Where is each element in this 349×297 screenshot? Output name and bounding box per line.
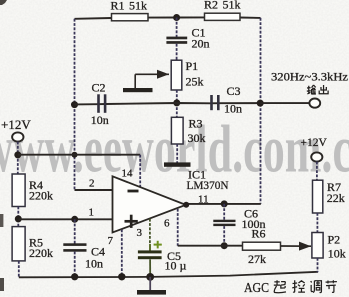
svg-text:10 µ: 10 µ [165,258,187,272]
wire output from op-amp [186,203,261,205]
svg-text:7: 7 [108,235,114,247]
label shuchu output CJK [307,85,328,94]
resistor R2 [205,13,241,20]
svg-text:10n: 10n [85,256,103,270]
capacitor C3 [210,95,219,110]
svg-text:220k: 220k [29,188,53,202]
node output junction [257,100,264,107]
terminal +12V left [12,132,23,141]
label P1 25k [186,59,204,88]
svg-text:1: 1 [89,207,95,219]
svg-text:C2: C2 [92,81,106,95]
wire C4 bottom stub [74,252,76,277]
CJK qi [274,280,286,292]
svg-text:R1: R1 [111,0,125,13]
wire C1 to P1 [176,44,178,61]
potentiometer P1 [171,60,182,90]
svg-text:22k: 22k [327,191,345,205]
capacitor C1 [166,37,187,44]
label R5 220k [29,236,53,260]
resistor R3 [171,117,183,144]
node op-amp output apex [183,202,189,208]
op-amp plus symbol [125,215,138,228]
ground R3 [164,162,191,166]
wire left vertical [74,19,76,190]
wire C2 C3 row [75,103,261,104]
wire output row [260,102,309,104]
node C5 bottom ground [146,273,154,281]
svg-text:R2: R2 [204,0,218,12]
svg-text:30k: 30k [188,131,206,145]
ground P1 wiper [123,88,153,92]
resistor R6 [243,242,281,250]
node C4 bottom [71,273,78,280]
CJK jie [326,280,337,292]
ground main [137,290,166,295]
svg-text:10n: 10n [224,101,242,115]
label R6 27k [248,227,266,267]
svg-text:27k: 27k [248,252,266,266]
resistor R7 [313,180,323,213]
label AGC qikong tiaojie [244,280,337,296]
svg-text:3: 3 [137,227,143,239]
capacitor C6 [213,220,235,226]
R6 to P2 wiper arrow [281,245,312,247]
label R2 51k [204,0,241,12]
label C4 10n [85,245,105,271]
svg-text:AGC: AGC [244,281,269,296]
wire C1 stub [176,18,178,38]
svg-text:C3: C3 [227,84,241,98]
terminal output [309,99,320,108]
svg-text:10k: 10k [328,246,346,260]
resistor R5 [12,227,25,261]
svg-text:320Hz~3.3kHz: 320Hz~3.3kHz [271,72,348,84]
svg-text:R3: R3 [189,117,203,131]
svg-text:6: 6 [164,217,170,229]
scan artifact top-left corner [0,0,7,5]
wire top rail [75,17,261,18]
scan artifact left edge mid [0,214,3,227]
capacitor C4 [63,243,86,251]
wire C6 top stub [223,204,225,220]
svg-text:220k: 220k [29,246,53,260]
svg-text:P1: P1 [186,59,199,73]
svg-text:+12V: +12V [1,117,31,132]
svg-text:2: 2 [89,177,95,189]
wire C6 bottom stub [223,226,225,246]
label C5 10u [165,249,187,273]
label R1 51k [111,0,148,13]
wire +12V to R4 [17,142,19,174]
node supply rail crossing [72,152,78,158]
node C6 bottom R6 row [221,242,228,249]
wire R7 to P2 [316,213,318,233]
node R1-R2 top junction [173,14,180,21]
label C1 20n [192,25,210,50]
wire pin14 vertical [139,155,141,188]
node pin7 ground rail [118,273,125,280]
svg-text:P2: P2 [328,233,341,247]
wire R4 to R5 [17,207,19,227]
label R3 30k [188,117,206,145]
watermark www.eeworld.com.c [0,111,349,187]
wire pin2 input [75,189,113,191]
svg-text:R6: R6 [252,227,266,241]
wire right vertical [260,18,262,204]
wire C4 top stub [74,219,76,243]
wire bottom rail [19,272,318,278]
wire R3 to ground [176,144,178,163]
op-amp minus symbol [128,190,139,193]
wire ground stub [149,277,151,290]
svg-text:25k: 25k [186,75,204,89]
op-amp U1 triangle [113,176,186,232]
wire R6 row [178,245,243,247]
svg-text:51k: 51k [129,0,147,13]
svg-text:14: 14 [122,168,134,180]
label C5 plus sign [154,241,162,249]
wire supply rail to pin14 [18,154,140,156]
capacitor C5 electrolytic [138,244,162,277]
wire R5 to ground rail [18,261,20,278]
wire pin3 vertical [149,219,151,251]
label C6 100n [242,207,266,232]
wire pin7 vertical [121,230,123,277]
CJK kong [292,280,305,292]
label R7 22k [327,180,345,205]
terminal +12V right [311,152,322,161]
label R4 220k [29,178,53,202]
P1 wiper arrow [135,74,169,88]
capacitor C2 [97,94,106,113]
node C6 top [221,200,228,207]
wire pin6 vertical [177,209,179,246]
node C4 top [71,216,78,223]
resistor R1 [112,14,149,21]
wire pin1 rail [18,218,112,220]
potentiometer P2 [312,233,323,259]
svg-text:+12V: +12V [301,137,328,149]
svg-text:20n: 20n [192,37,210,51]
wire P2 bottom to rail [317,258,319,272]
resistor R4 [12,174,25,207]
scan artifact left edge bottom [0,278,4,291]
node +12V rail [14,151,21,158]
svg-text:10n: 10n [91,113,109,127]
node C2 left junction [71,101,78,108]
CJK diao [311,281,322,293]
wire +12V to R7 [316,162,318,181]
wire P1 to R3 node [176,90,178,117]
svg-text:51k: 51k [223,0,241,12]
node bias divider [15,215,22,222]
node filter mid [173,99,180,106]
svg-text:LM370N: LM370N [187,178,229,192]
label P2 10k [328,233,346,261]
